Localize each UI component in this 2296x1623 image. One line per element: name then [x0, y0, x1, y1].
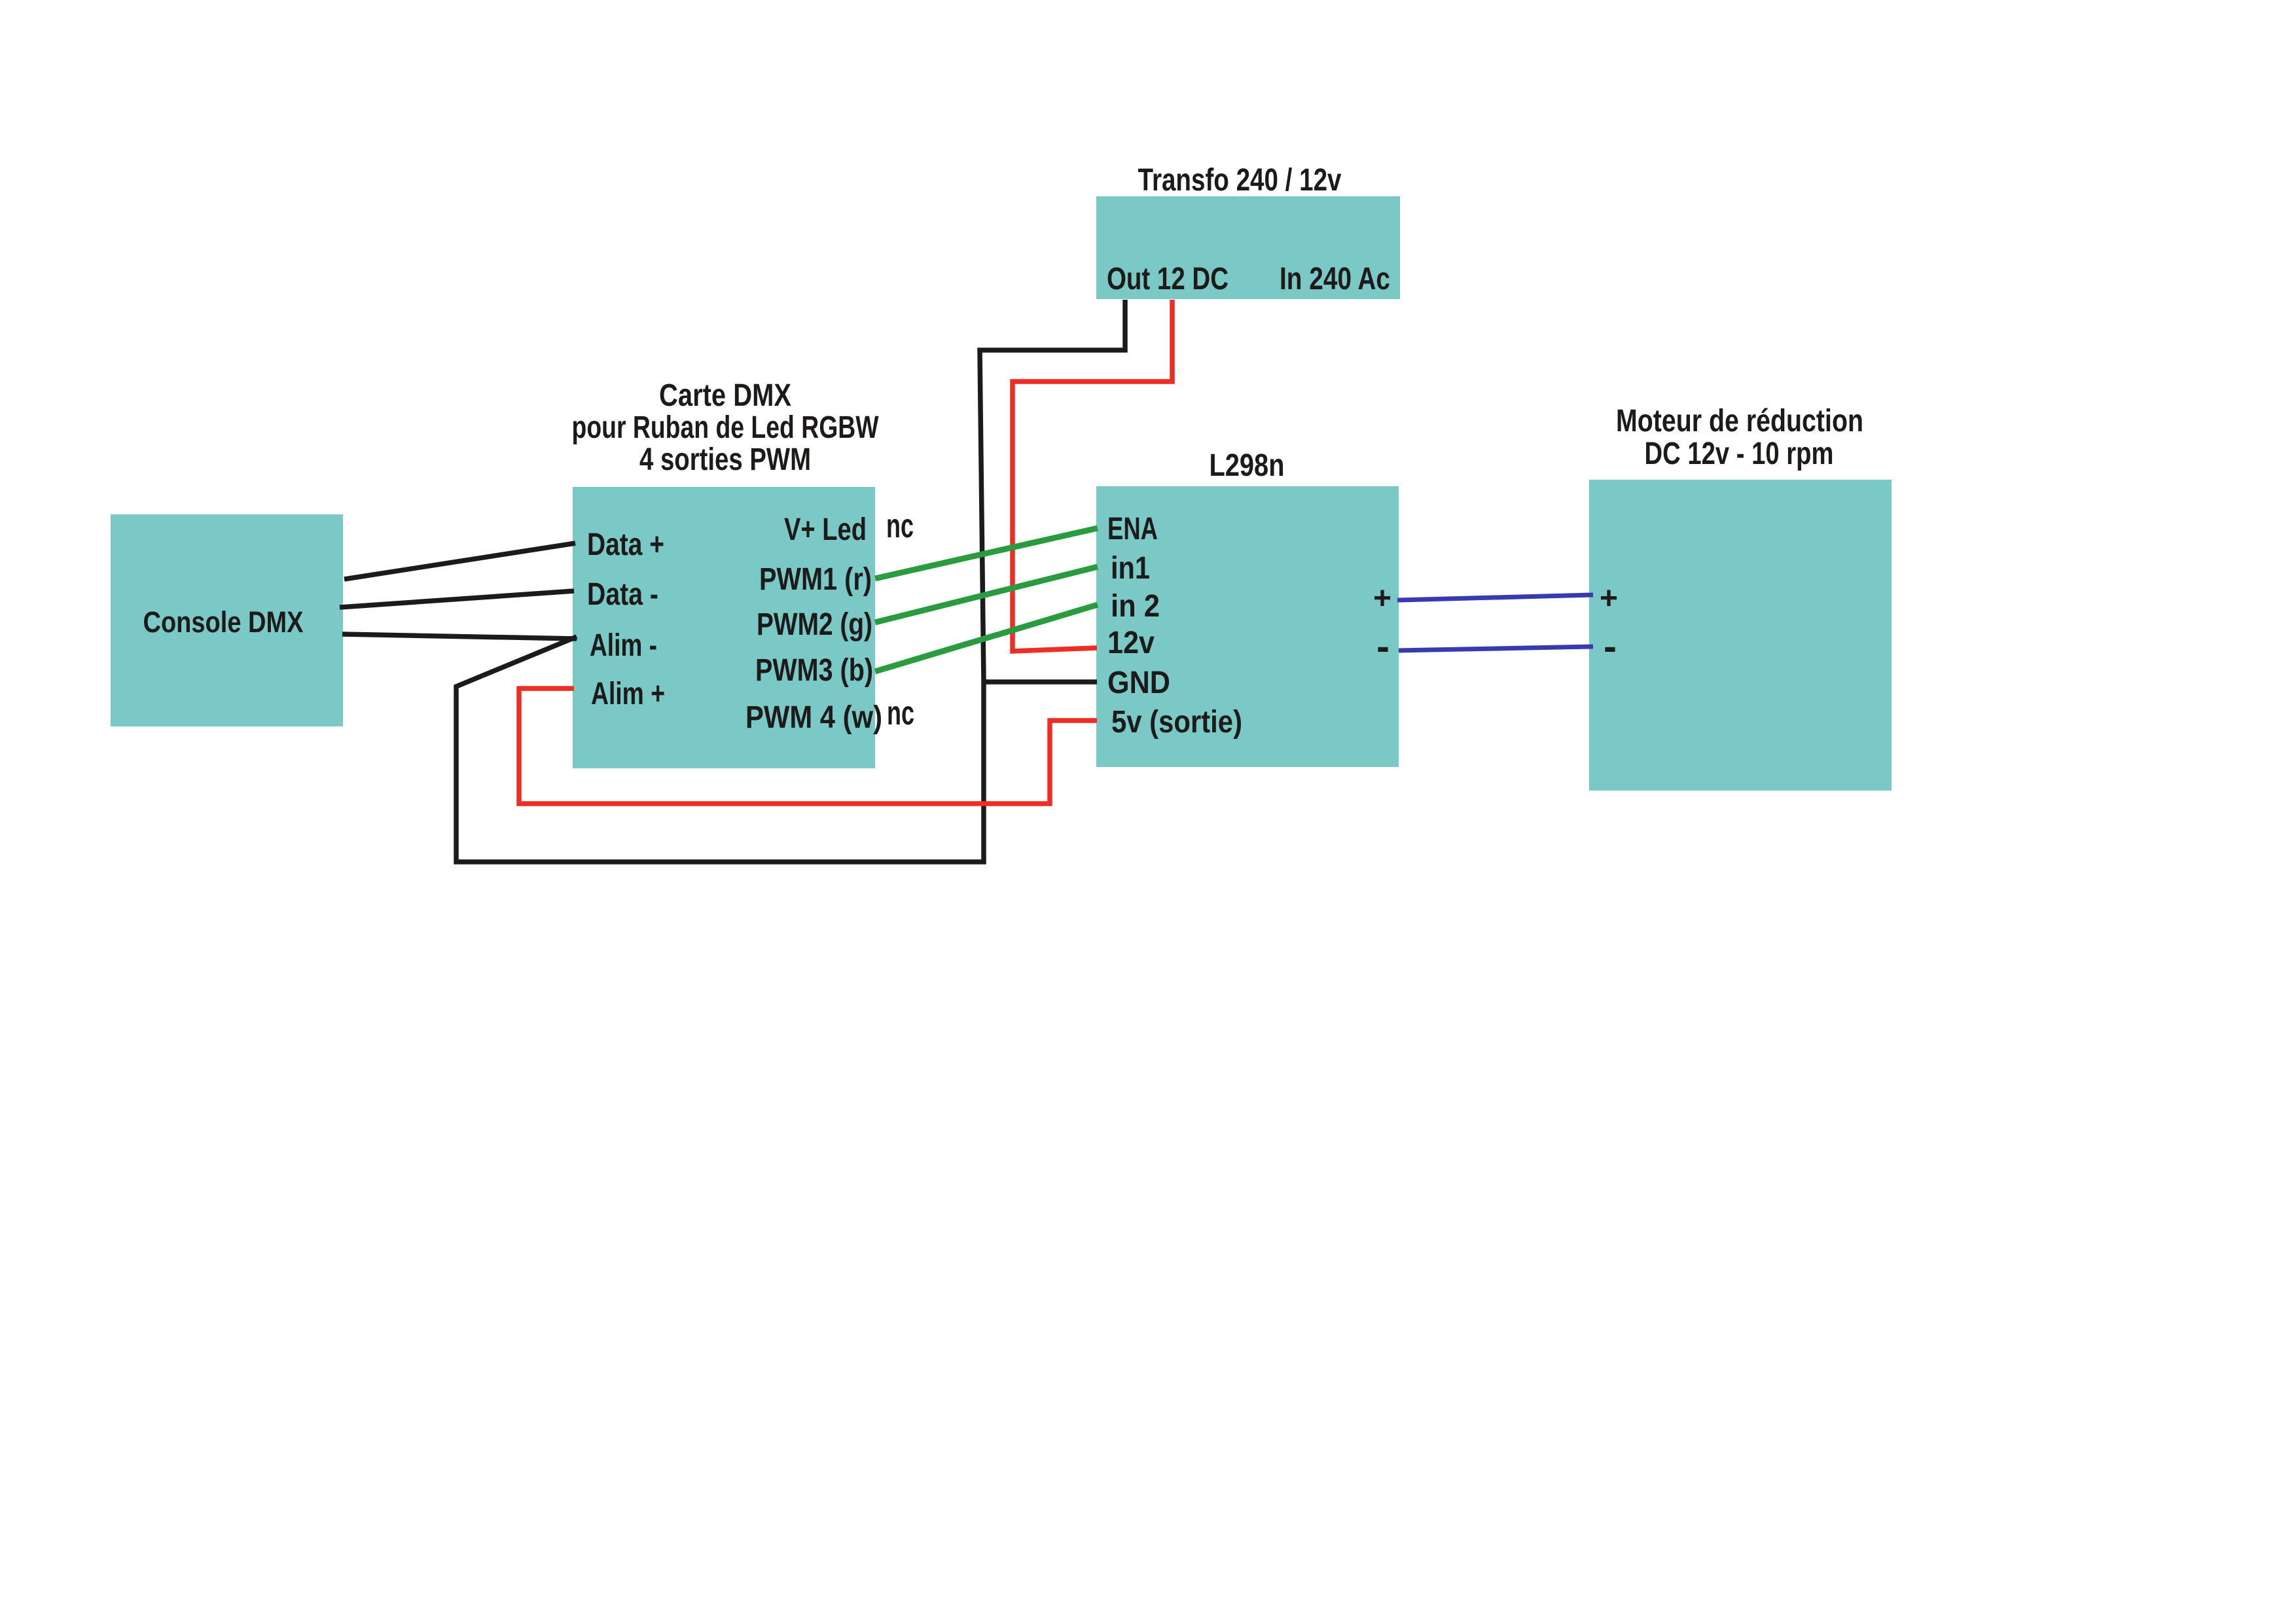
svg-text:12v: 12v: [1107, 626, 1155, 660]
wire console to Alim -: [342, 634, 577, 639]
svg-text:in1: in1: [1111, 551, 1150, 586]
svg-text:Out 12 DC: Out 12 DC: [1107, 262, 1229, 296]
svg-text:Carte DMX: Carte DMX: [659, 378, 791, 413]
svg-text:+: +: [1373, 581, 1391, 616]
svg-text:4 sorties PWM: 4 sorties PWM: [639, 442, 811, 477]
wire Alim - to GND junction: [456, 637, 984, 862]
moteur block: [1589, 480, 1892, 791]
svg-text:ENA: ENA: [1107, 512, 1158, 546]
wire PWM1 (r) to ENA: [875, 528, 1098, 579]
svg-text:Console DMX: Console DMX: [143, 605, 304, 639]
svg-text:PWM1 (r): PWM1 (r): [759, 562, 872, 597]
wire Alim + to 5v (sortie): [519, 688, 1097, 804]
wire transfo red to 12v: [1013, 300, 1172, 651]
svg-text:Alim +: Alim +: [591, 677, 665, 711]
svg-text:V+ Led: V+ Led: [784, 512, 867, 547]
svg-text:pour Ruban de Led RGBW: pour Ruban de Led RGBW: [572, 410, 880, 445]
console DMX block: [111, 514, 343, 726]
svg-text:Moteur de réduction: Moteur de réduction: [1616, 404, 1863, 438]
moteur title: [1616, 404, 1863, 471]
svg-text:in 2: in 2: [1111, 589, 1160, 624]
svg-text:GND: GND: [1107, 666, 1170, 700]
carte DMX title: [572, 378, 880, 477]
wire console to Data +: [344, 543, 575, 579]
svg-text:Data -: Data -: [587, 577, 658, 612]
svg-text:L298n: L298n: [1210, 448, 1285, 483]
svg-text:Data +: Data +: [587, 527, 664, 562]
carte DMX block: [573, 487, 875, 768]
svg-text:-: -: [1376, 624, 1390, 668]
svg-text:PWM2 (g): PWM2 (g): [757, 607, 872, 642]
wire - to - (blue): [1399, 647, 1593, 651]
wire PWM3 (b) to in 2: [875, 605, 1098, 671]
svg-text:Alim -: Alim -: [590, 628, 657, 663]
svg-text:nc: nc: [886, 507, 914, 545]
wire console to Data -: [340, 591, 574, 607]
wire + to + (blue): [1397, 595, 1593, 600]
svg-text:5v (sortie): 5v (sortie): [1111, 705, 1242, 740]
L298n block: [1096, 486, 1399, 767]
svg-text:DC 12v - 10 rpm: DC 12v - 10 rpm: [1645, 437, 1834, 471]
svg-text:+: +: [1600, 581, 1618, 616]
svg-text:PWM 4 (w): PWM 4 (w): [745, 700, 882, 735]
svg-text:nc: nc: [887, 694, 914, 732]
svg-text:Transfo 240 / 12v: Transfo 240 / 12v: [1138, 163, 1342, 198]
svg-text:In 240 Ac: In 240 Ac: [1280, 262, 1390, 296]
wire PWM2 (g) to in1: [875, 567, 1098, 622]
svg-text:PWM3 (b): PWM3 (b): [755, 653, 873, 688]
svg-text:-: -: [1604, 624, 1617, 668]
wire transfo Out 12 DC to GND: [980, 300, 1125, 682]
transfo block: [1096, 196, 1400, 299]
